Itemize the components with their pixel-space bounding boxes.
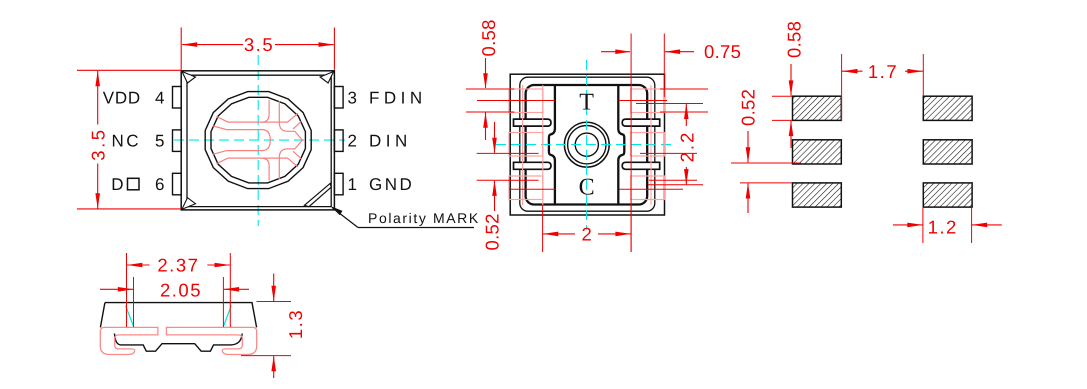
lens internal trace vertical top-left: [262, 100, 270, 122]
lens internal trace bottom channel: [217, 158, 299, 167]
svg-text:D: D: [111, 175, 126, 194]
lens outer polygon: [205, 92, 311, 189]
svg-text:4: 4: [155, 88, 164, 107]
svg-text:6: 6: [155, 175, 164, 194]
svg-text:GND: GND: [369, 175, 414, 194]
dimension 3.5 horizontal line and arrows: [182, 44, 243, 46]
svg-text:0.52: 0.52: [482, 213, 503, 250]
centerline vertical (top view): [257, 55, 259, 226]
svg-text:C: C: [579, 175, 595, 201]
side view cyan projection diagonals: [126, 306, 134, 327]
footprint overlay rect right row3: [631, 176, 665, 200]
right pad slot upper: [622, 119, 660, 126]
thermal pad ring middle: [568, 126, 606, 164]
svg-text:2: 2: [581, 223, 591, 244]
pin 2 pad: [334, 130, 343, 152]
footprint overlay rect left row3: [509, 176, 543, 200]
package inner body outline: [187, 75, 331, 206]
right pad slot lower: [622, 162, 660, 169]
svg-text:3: 3: [348, 88, 357, 107]
bottom view outer outline: [510, 74, 664, 215]
svg-text:3.5: 3.5: [88, 127, 109, 160]
overlay extension lines right: [660, 88, 708, 90]
footprint overlay rect left row1: [509, 89, 543, 113]
pin 4 pad: [173, 87, 182, 109]
solder pad row1 left (hatched): [793, 96, 842, 120]
dimension 0.75 extension lines: [630, 34, 632, 253]
dimension 0.75 arrows and text: [601, 51, 630, 53]
0.52 extension lines: [731, 162, 801, 164]
svg-text:1.7: 1.7: [868, 61, 898, 82]
thermal pad ring outer: [564, 122, 609, 167]
solder pad row3 left (hatched): [793, 183, 842, 207]
thermal pad ring inner: [575, 133, 598, 156]
dimension 1.7 extension lines: [841, 54, 843, 121]
svg-text:1.3: 1.3: [285, 309, 306, 339]
side view left lead (light red): [100, 327, 158, 354]
side view bottom mold profile: [115, 334, 243, 352]
dimension 3.5 vertical extension lines: [77, 69, 181, 71]
dimension 2 extension lines: [542, 205, 544, 252]
dimension 2.37 extension lines: [126, 253, 128, 327]
svg-text:0.75: 0.75: [704, 41, 741, 62]
pin 6 pad: [173, 173, 182, 195]
svg-text:0.58: 0.58: [784, 21, 805, 58]
centerline horizontal (top view): [174, 139, 345, 141]
dimension 1.2 extension lines: [922, 208, 924, 243]
solder pad row3 right (hatched): [923, 183, 972, 207]
dimension 2.05 arrows and text: [100, 288, 133, 290]
lens internal trace diagonal stub top-right: [293, 121, 301, 129]
svg-text:NC: NC: [111, 132, 141, 151]
side view right lead (light red): [166, 327, 256, 354]
overlay extension lines left: [466, 88, 514, 90]
footprint overlay rect right row1: [631, 89, 665, 113]
lens internal trace diagonal stub bottom-right: [293, 151, 301, 159]
svg-text:1.2: 1.2: [928, 217, 958, 238]
lens internal trace vertical bottom-left: [262, 158, 270, 181]
pin 3 pad: [334, 87, 343, 109]
pin 1 pad: [334, 173, 343, 195]
central panel right edge: [618, 86, 624, 204]
dimension 2.2 line arrows text: [685, 104, 687, 126]
lens internal trace top channel: [217, 113, 299, 122]
pin 5 pad: [173, 130, 182, 152]
polarity mark leader arrow: [331, 206, 343, 215]
solder pad row2 left (hatched): [793, 140, 842, 164]
svg-text:2: 2: [348, 132, 357, 151]
svg-text:DIN: DIN: [369, 132, 412, 151]
side view body outline: [100, 303, 256, 328]
dimension 3.5 horizontal extension lines: [180, 28, 182, 70]
svg-text:2.37: 2.37: [157, 255, 199, 276]
svg-text:2.2: 2.2: [676, 131, 697, 163]
corner chamfer mark top-left: [182, 72, 196, 84]
dimension 1.7 arrows and text: [842, 70, 863, 72]
svg-text:2.05: 2.05: [160, 279, 202, 300]
svg-text:VDD: VDD: [103, 88, 141, 107]
svg-text:T: T: [579, 90, 594, 116]
svg-text:3.5: 3.5: [244, 34, 274, 55]
dimension 2.2 extension lines: [636, 103, 703, 105]
dimension 1.3 extension lines: [257, 301, 292, 303]
lens internal trace center-left channel: [213, 126, 271, 155]
dimension 2 line arrows text: [543, 233, 575, 235]
svg-text:0.58: 0.58: [478, 19, 499, 56]
svg-text:0.52: 0.52: [738, 89, 759, 126]
polarity bevel corner bottom-right: [304, 183, 331, 206]
svg-text:1: 1: [348, 175, 357, 194]
solder pad row2 right (hatched): [923, 140, 972, 164]
centerline horizontal (bottom view): [496, 144, 676, 146]
solder pad row1 right (hatched): [923, 96, 972, 120]
dimension 2.05 extension lines: [133, 277, 135, 327]
footprint overlay rect left row2: [509, 133, 543, 157]
package outer body outline: [181, 71, 334, 210]
left pad slot lower: [514, 162, 552, 169]
corner chamfer mark top-right: [320, 72, 334, 84]
lens inner polygon: [211, 97, 305, 183]
footprint overlay faint verticals: [522, 85, 524, 205]
svg-text:5: 5: [155, 132, 164, 151]
dimension 1.2 arrows and text: [893, 224, 923, 226]
0.58 extension lines: [772, 95, 792, 97]
centerline vertical (bottom view): [586, 60, 588, 230]
left pad slot upper: [514, 119, 552, 126]
svg-text:Polarity MARK: Polarity MARK: [368, 210, 480, 226]
corner chamfer mark bottom-left: [182, 198, 196, 210]
svg-text:FDIN: FDIN: [369, 88, 427, 107]
metal base outline (thick): [526, 85, 648, 205]
dimension 2.37 arrows and text: [127, 264, 150, 266]
bottom view inner rounded outline: [520, 77, 655, 211]
footprint overlay rect right row2: [631, 133, 665, 157]
central panel left edge: [549, 86, 555, 204]
dimension 3.5 vertical line and arrows: [97, 71, 99, 125]
lens internal trace right cross channel: [279, 101, 302, 179]
dimension 1.3 arrows and text: [273, 274, 275, 302]
